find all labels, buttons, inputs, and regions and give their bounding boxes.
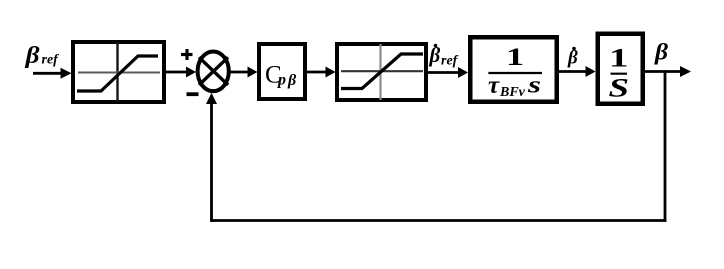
svg-text:S: S [609, 74, 630, 102]
svg-text:β: β [287, 72, 297, 89]
svg-text:1: 1 [609, 44, 628, 73]
svg-text:ref: ref [441, 54, 459, 69]
svg-text:BFv: BFv [499, 85, 526, 100]
svg-text:τ: τ [488, 72, 500, 99]
svg-text:s: s [527, 73, 541, 99]
svg-text:p: p [276, 72, 286, 89]
svg-text:β: β [654, 40, 668, 65]
svg-text:β: β [25, 41, 40, 68]
svg-text:β: β [567, 48, 578, 69]
svg-text:ref: ref [42, 53, 60, 68]
svg-text:1: 1 [506, 43, 524, 71]
